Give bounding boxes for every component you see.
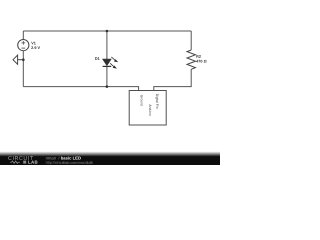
label R2 value xyxy=(196,55,206,64)
svg-text:2.9 V: 2.9 V xyxy=(31,46,40,50)
svg-text:Ground: Ground xyxy=(140,95,144,106)
subcircuit box Arduino xyxy=(129,91,166,126)
wire V1 bottom to rail xyxy=(22,51,24,87)
watermark bar xyxy=(0,152,220,166)
wire R2 bottom to box xyxy=(154,69,191,90)
LED arrow 1 xyxy=(111,57,118,62)
logo zigzag xyxy=(10,161,20,163)
node junction gnd xyxy=(22,58,25,61)
svg-text:D1: D1 xyxy=(95,57,100,61)
resistor R2 xyxy=(187,50,195,69)
LED D1 xyxy=(103,57,119,69)
svg-text:nman / basic LED: nman / basic LED xyxy=(46,156,81,161)
ground flag xyxy=(13,55,23,64)
wire bottom left rail xyxy=(23,87,138,91)
svg-text:470 Ω: 470 Ω xyxy=(196,60,206,64)
LED arrow 2 xyxy=(110,63,117,68)
logo square xyxy=(23,161,26,164)
wire top rail xyxy=(23,30,191,32)
svg-text:Digital Pin: Digital Pin xyxy=(155,94,159,109)
node junction top xyxy=(106,30,109,33)
wire V1 top stub xyxy=(22,31,24,40)
wire LED anode xyxy=(106,31,108,59)
wire R2 top xyxy=(190,31,192,50)
voltage source V1 xyxy=(18,40,29,51)
svg-text:http://circuitlab.com/cwx4kd8: http://circuitlab.com/cwx4kd8 xyxy=(46,161,93,165)
node junction bottom xyxy=(106,85,109,88)
svg-text:V1: V1 xyxy=(31,41,36,45)
svg-text:LAB: LAB xyxy=(28,160,38,165)
svg-text:R2: R2 xyxy=(196,55,201,59)
svg-text:Arduino: Arduino xyxy=(148,104,152,116)
wire LED cathode xyxy=(106,67,108,87)
label V1 value xyxy=(31,41,40,50)
